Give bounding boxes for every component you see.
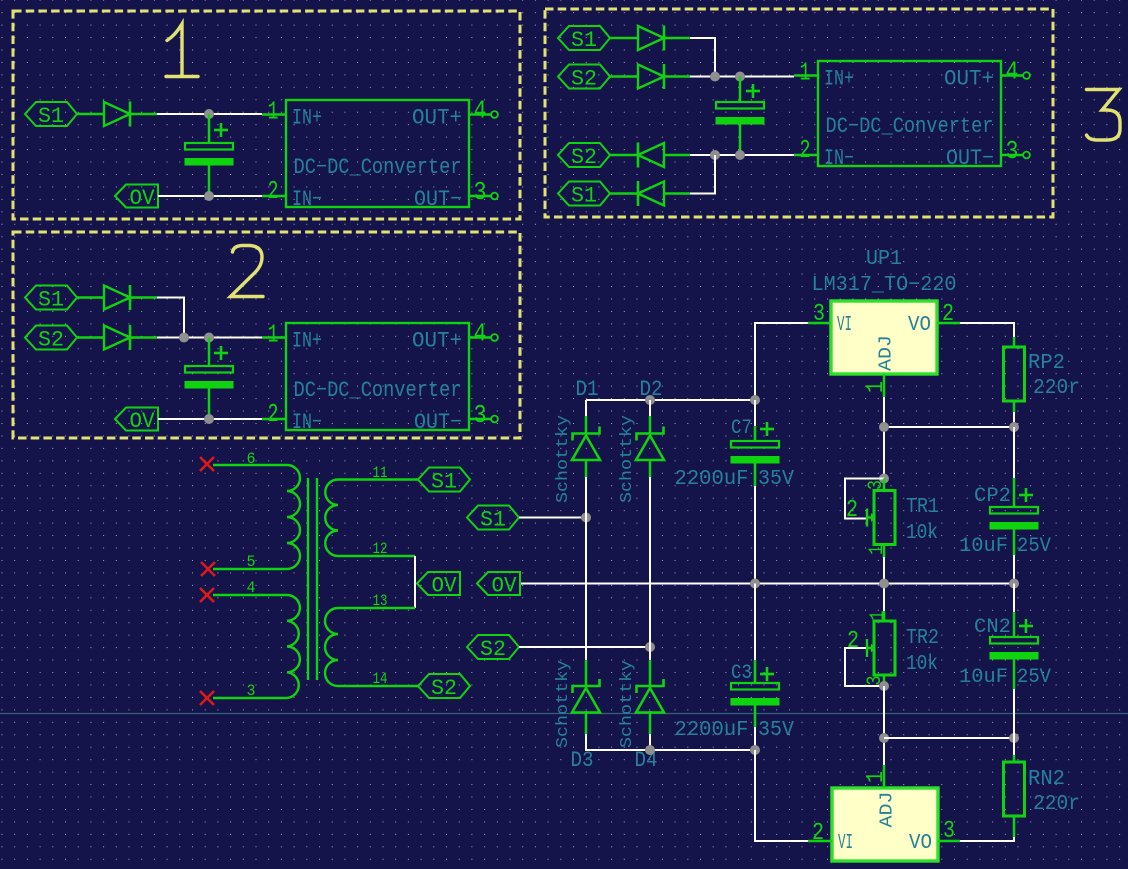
svg-text:OV: OV — [492, 574, 518, 599]
svg-text:S2: S2 — [571, 67, 597, 92]
label S1 (xfmr 11) — [418, 468, 470, 492]
svg-text:35V: 35V — [758, 468, 794, 491]
svg-text:10uF: 10uF — [959, 666, 1008, 689]
lead C3 bottom — [754, 706, 757, 729]
svg-text:4: 4 — [1006, 57, 1019, 87]
lead out — [130, 296, 157, 299]
wire D1-D2-C7 top — [586, 323, 808, 400]
primary winding bottom — [287, 595, 300, 698]
trimmer TR1 — [874, 491, 895, 545]
svg-text:10uF: 10uF — [959, 535, 1008, 558]
svg-text:1: 1 — [268, 97, 279, 127]
svg-text:220r: 220r — [1033, 377, 1080, 400]
lead U2 pin2 — [808, 840, 832, 843]
lead D1 top — [585, 416, 588, 433]
converter U (block1) — [286, 100, 469, 207]
svg-text:Schottky: Schottky — [618, 660, 637, 748]
lead TR2 pin3 — [883, 675, 886, 686]
svg-text:S2: S2 — [431, 676, 457, 701]
junction RP2 adj — [1009, 422, 1019, 432]
svg-text:IN+: IN+ — [292, 329, 322, 354]
svg-text:S1: S1 — [571, 28, 597, 53]
svg-text:35V: 35V — [758, 719, 794, 742]
lead UP1 pin2 — [937, 322, 960, 325]
diode D4 (Schottky) — [637, 679, 664, 693]
lead C3 top — [754, 660, 757, 683]
svg-text:IN−: IN− — [292, 187, 322, 212]
junction TR2 pin3 — [879, 681, 889, 691]
variant box 3 (dashed) — [545, 9, 1053, 217]
svg-text:ADJ: ADJ — [877, 335, 897, 371]
svg-text:25V: 25V — [1017, 666, 1051, 689]
svg-text:3: 3 — [474, 400, 487, 430]
svg-text:VO: VO — [908, 314, 931, 337]
lead diode out — [130, 113, 157, 116]
diode D (block3 r1) — [638, 26, 664, 50]
svg-text:10k: 10k — [906, 522, 938, 545]
svg-text:2: 2 — [846, 497, 858, 524]
diode D (block1 S1) — [104, 102, 130, 126]
lead RN2 bottom — [1013, 816, 1016, 838]
wire adj rail — [883, 397, 885, 480]
diode D (block2 S1) — [104, 286, 130, 310]
junction adj1 — [879, 422, 889, 432]
resistor RP2 — [1004, 347, 1025, 401]
junction b — [204, 333, 214, 343]
wire TR1 to 0V — [883, 557, 885, 612]
wire cap top2 — [208, 338, 211, 367]
variant box 2 (dashed) — [13, 232, 520, 438]
lead D2 bottom — [649, 462, 652, 479]
numeral 3 — [1087, 90, 1121, 141]
svg-text:14: 14 — [373, 670, 388, 688]
junction (block1 top) — [204, 109, 214, 119]
svg-text:2: 2 — [942, 301, 954, 328]
capacitor C (block1) — [185, 143, 233, 150]
wire C3 top — [754, 584, 756, 663]
no-connect X pin5 — [201, 562, 215, 576]
diode D1 (Schottky) — [573, 427, 600, 441]
wire neg bus to VI2 — [755, 750, 808, 841]
svg-text:3: 3 — [247, 682, 256, 700]
pin 14 lead — [338, 685, 418, 688]
op-amp U2 (LM317 bottom) — [832, 788, 938, 861]
svg-text:12: 12 — [373, 540, 388, 558]
pin 4 lead — [213, 594, 287, 597]
svg-text:3: 3 — [1006, 136, 1019, 166]
svg-text:ADJ: ADJ — [878, 792, 898, 828]
wire 12-13 bracket — [414, 556, 416, 608]
junction D2 top — [645, 395, 655, 405]
wire S2-diode — [77, 336, 104, 339]
svg-text:3: 3 — [474, 177, 487, 207]
secondary winding bottom — [325, 608, 338, 686]
svg-text:OV: OV — [432, 574, 458, 599]
svg-text:13: 13 — [373, 592, 388, 610]
lead r4 — [664, 192, 690, 195]
label 0V (block2) — [115, 408, 158, 431]
junction C7 top — [750, 395, 760, 405]
svg-text:Schottky: Schottky — [554, 660, 573, 748]
label S2 (net) — [467, 635, 519, 659]
svg-text:OUT+: OUT+ — [944, 67, 994, 92]
wire D3 to neg bus — [586, 734, 755, 750]
label 0V (net) — [477, 572, 520, 595]
junction TR1 0V — [879, 579, 889, 589]
label 0V (block1) — [115, 185, 158, 208]
svg-text:RP2: RP2 — [1028, 352, 1065, 375]
wire 0V bus — [521, 583, 1014, 585]
diode D (block3 r3, reversed) — [638, 143, 664, 167]
label S2 (block2) — [25, 326, 77, 350]
svg-text:TR2: TR2 — [906, 627, 939, 650]
pin 5 lead — [213, 568, 287, 571]
svg-text:2: 2 — [847, 628, 859, 655]
label S1 (block1) — [25, 102, 77, 126]
wire S1 net — [519, 517, 586, 519]
converter U (block3) — [818, 61, 1001, 166]
no-connect X pin3 — [200, 691, 214, 705]
svg-text:3: 3 — [943, 818, 955, 845]
wire r4 branch — [690, 155, 715, 194]
svg-text:1: 1 — [800, 58, 811, 88]
op-amp U UP1 (LM317) — [831, 301, 937, 374]
svg-text:OV: OV — [130, 186, 156, 211]
wire VO to RP2 — [960, 323, 1014, 339]
junction f — [710, 150, 720, 160]
svg-text:Schottky: Schottky — [618, 415, 637, 503]
lead D4 top — [649, 660, 652, 686]
lead D3 top — [585, 660, 588, 686]
capacitor CN2 — [990, 637, 1038, 644]
svg-text:CP2: CP2 — [974, 485, 1011, 508]
junction S2-D2 — [645, 642, 655, 652]
lead C7 top — [754, 426, 757, 441]
lead r3 — [664, 154, 690, 157]
lead RP2 bottom — [1013, 401, 1016, 413]
lead D2 top — [649, 416, 652, 433]
wire CP2 bottom — [1013, 555, 1015, 584]
transformer core — [307, 478, 309, 680]
svg-text:IN−: IN− — [824, 146, 854, 171]
wire cap bottom3 — [739, 125, 742, 156]
wire s1d — [610, 37, 638, 40]
lead D4 bottom — [649, 711, 652, 735]
label 0V (xfmr) — [417, 572, 460, 595]
diode D (block2 S2) — [104, 326, 130, 350]
junction a — [179, 333, 189, 343]
wire 0V-IN- — [158, 195, 262, 197]
junction g — [735, 150, 745, 160]
wire C7 top — [754, 400, 756, 428]
label S2 (block3 r2) — [558, 65, 610, 89]
svg-text:5: 5 — [247, 553, 256, 571]
svg-text:IN−: IN− — [292, 410, 322, 435]
lead CP2 bottom — [1013, 530, 1016, 557]
junction c — [204, 414, 214, 424]
pin 12 lead — [338, 555, 415, 558]
pin 3 lead — [213, 697, 287, 700]
svg-text:DC−DC_Converter: DC−DC_Converter — [294, 378, 462, 403]
svg-text:4: 4 — [474, 319, 487, 349]
wire cap bottom — [208, 165, 211, 196]
converter U (block2) — [286, 323, 469, 430]
wire TR1 wiper link — [845, 479, 884, 519]
junction S1-D1 — [581, 513, 591, 523]
wire D2 rail top — [649, 400, 651, 418]
junction C7 0V — [750, 579, 760, 589]
wire S1 branch — [157, 298, 184, 338]
svg-text:2200uF: 2200uF — [675, 468, 749, 491]
capacitor C7 — [731, 441, 779, 448]
svg-text:C3: C3 — [731, 662, 752, 685]
svg-text:S1: S1 — [571, 184, 597, 209]
diode D2 (Schottky) — [637, 427, 664, 441]
svg-text:IN+: IN+ — [824, 67, 854, 92]
variant box 1 (dashed) — [13, 11, 520, 219]
junction adj2 — [879, 474, 889, 484]
junction D4 neg — [645, 745, 655, 755]
junction (block1 bottom) — [204, 191, 214, 201]
wire TR2 down — [883, 686, 885, 767]
svg-text:1: 1 — [866, 545, 889, 555]
wire S1-diode — [77, 113, 104, 116]
resistor RN2 — [1004, 762, 1025, 816]
lead r1 — [664, 37, 690, 40]
capacitor C (block2) — [185, 366, 233, 373]
plus (block3) — [746, 90, 760, 93]
svg-text:IN+: IN+ — [292, 106, 322, 131]
svg-text:4: 4 — [474, 96, 487, 126]
wire C3 bottom — [754, 727, 756, 750]
svg-text:DC−DC_Converter: DC−DC_Converter — [826, 114, 994, 139]
svg-text:LM317_TO−220: LM317_TO−220 — [812, 274, 957, 297]
lead CN2 top — [1013, 612, 1016, 637]
svg-text:1: 1 — [867, 611, 890, 621]
label S1 (block3 top) — [558, 26, 610, 50]
wire s2d2 — [610, 154, 638, 157]
lead r2 — [664, 75, 690, 78]
wire to IN-3 — [690, 154, 794, 156]
wire RN2 to VO2 — [960, 837, 1014, 841]
wire r1 branch — [690, 38, 715, 77]
svg-text:S2: S2 — [571, 145, 597, 170]
svg-text:S1: S1 — [38, 288, 64, 313]
wire neg link — [884, 737, 1014, 739]
svg-text:2: 2 — [268, 176, 279, 206]
wire cap bottom2 — [208, 388, 211, 419]
svg-text:1: 1 — [268, 320, 279, 350]
svg-text:2: 2 — [800, 135, 811, 165]
svg-text:1: 1 — [863, 381, 890, 393]
svg-text:VI: VI — [837, 314, 852, 337]
plus C7 — [760, 428, 774, 431]
label S1 (block2) — [25, 286, 77, 310]
wire diode-IN+ — [157, 113, 262, 115]
wire D2 rail bottom — [649, 477, 651, 662]
wire D4 to neg bus — [649, 734, 651, 750]
svg-text:VI: VI — [838, 832, 853, 855]
svg-text:220r: 220r — [1033, 793, 1080, 816]
wire to IN+ — [157, 337, 262, 339]
wire S2 net — [519, 646, 650, 648]
label S2 (xfmr 14) — [418, 674, 470, 698]
wire C7 bottom — [754, 486, 756, 584]
secondary winding top — [325, 480, 338, 557]
svg-text:S2: S2 — [38, 328, 64, 353]
trimmer TR2 — [874, 621, 895, 675]
junction d — [710, 72, 720, 82]
svg-text:6: 6 — [247, 450, 256, 468]
svg-text:OUT−: OUT− — [414, 187, 462, 212]
lead D3 bottom — [585, 711, 588, 735]
lead out2 — [130, 336, 157, 339]
junction e — [735, 72, 745, 82]
lead CN2 bottom — [1013, 660, 1016, 691]
pin 6 lead — [213, 464, 287, 467]
lead UP1 pin1 — [883, 374, 886, 397]
lead D1 bottom — [585, 462, 588, 479]
svg-text:1: 1 — [863, 771, 890, 783]
svg-text:4: 4 — [247, 579, 256, 597]
lead TR1 pin1 — [883, 545, 886, 559]
plus CN2 — [1019, 625, 1033, 628]
primary winding top — [287, 465, 300, 569]
numeral 2 — [231, 246, 264, 297]
label S2 (block3 r3) — [558, 143, 610, 167]
lead RN2 top — [1013, 755, 1016, 762]
svg-text:D3: D3 — [571, 748, 594, 773]
svg-text:OUT+: OUT+ — [412, 329, 462, 354]
lead U2 pin3 — [938, 840, 960, 843]
svg-text:Schottky: Schottky — [554, 415, 573, 503]
lead C7 bottom — [754, 464, 757, 488]
wire D1 rail bottom — [585, 477, 587, 662]
capacitor CP2 — [990, 507, 1038, 514]
wire D1 rail top — [585, 400, 587, 418]
no-connect X pin4 — [200, 588, 214, 602]
capacitor C (block3) — [716, 102, 764, 109]
pin 11 lead — [338, 478, 418, 481]
svg-text:RN2: RN2 — [1028, 768, 1065, 791]
svg-text:OUT−: OUT− — [946, 146, 994, 171]
svg-text:CN2: CN2 — [974, 616, 1011, 639]
plus (block2) — [214, 352, 228, 355]
wire CP2 top — [1013, 427, 1015, 480]
diode D3 (Schottky) — [573, 679, 600, 693]
lead CP2 top — [1013, 478, 1016, 507]
diode D (block3 r2) — [638, 65, 664, 89]
junction neg RN2 — [1009, 733, 1019, 743]
svg-text:11: 11 — [373, 464, 388, 482]
wire 0V-IN-2 — [158, 418, 262, 420]
lead U2 pin1 — [883, 765, 886, 788]
wire RN2 top — [1013, 738, 1015, 757]
wire s2d — [610, 75, 638, 78]
svg-text:S1: S1 — [38, 104, 64, 129]
svg-text:OUT−: OUT− — [414, 410, 462, 435]
svg-text:2: 2 — [812, 820, 824, 847]
wire CN2 top — [1013, 584, 1015, 615]
pin 13 lead — [338, 607, 415, 610]
svg-text:2200uF: 2200uF — [675, 719, 749, 742]
svg-text:C7: C7 — [731, 417, 752, 440]
plus CP2 — [1019, 494, 1033, 497]
wire cap top — [208, 114, 211, 143]
svg-text:3: 3 — [865, 480, 888, 490]
svg-text:D2: D2 — [640, 377, 663, 402]
lead RP2 top — [1013, 337, 1016, 347]
svg-text:OV: OV — [130, 409, 156, 434]
svg-text:10k: 10k — [906, 653, 938, 676]
label S1 (block3 r4) — [558, 182, 610, 206]
svg-text:UP1: UP1 — [866, 248, 902, 271]
junction C3 neg — [750, 745, 760, 755]
svg-text:VO: VO — [909, 832, 932, 855]
wire CN2 bottom — [1013, 689, 1015, 738]
label S1 (net) — [467, 506, 519, 530]
sheet boundary line — [0, 713, 1128, 715]
wire S1-diode2 — [77, 296, 104, 299]
lead UP1 pin3 — [808, 322, 831, 325]
numeral 1 — [166, 24, 198, 77]
junction neg adj — [879, 733, 889, 743]
svg-text:2: 2 — [268, 399, 279, 429]
plus (block1) — [214, 129, 228, 132]
lead TR2 pin1 — [883, 611, 886, 621]
wire RP2 to adj — [884, 412, 1014, 427]
no-connect X pin6 — [200, 457, 214, 471]
svg-text:OUT+: OUT+ — [412, 106, 462, 131]
svg-text:3: 3 — [813, 301, 825, 328]
wire to IN+3 — [690, 76, 794, 78]
svg-text:S1: S1 — [431, 470, 457, 495]
svg-text:TR1: TR1 — [906, 496, 939, 519]
lead TR1 pin3 — [883, 479, 886, 491]
wire TR2 wiper link — [845, 648, 884, 686]
plus C3 — [760, 673, 774, 676]
svg-text:S2: S2 — [480, 637, 506, 662]
wire cap top3 — [739, 77, 742, 103]
svg-text:D1: D1 — [576, 377, 599, 402]
junction CP2 0V — [1009, 579, 1019, 589]
capacitor C3 — [731, 683, 779, 690]
svg-text:25V: 25V — [1017, 535, 1051, 558]
svg-text:S1: S1 — [480, 508, 506, 533]
wire s1d2 — [610, 192, 638, 195]
svg-text:DC−DC_Converter: DC−DC_Converter — [294, 155, 462, 180]
diode D (block3 r4, reversed) — [638, 182, 664, 206]
